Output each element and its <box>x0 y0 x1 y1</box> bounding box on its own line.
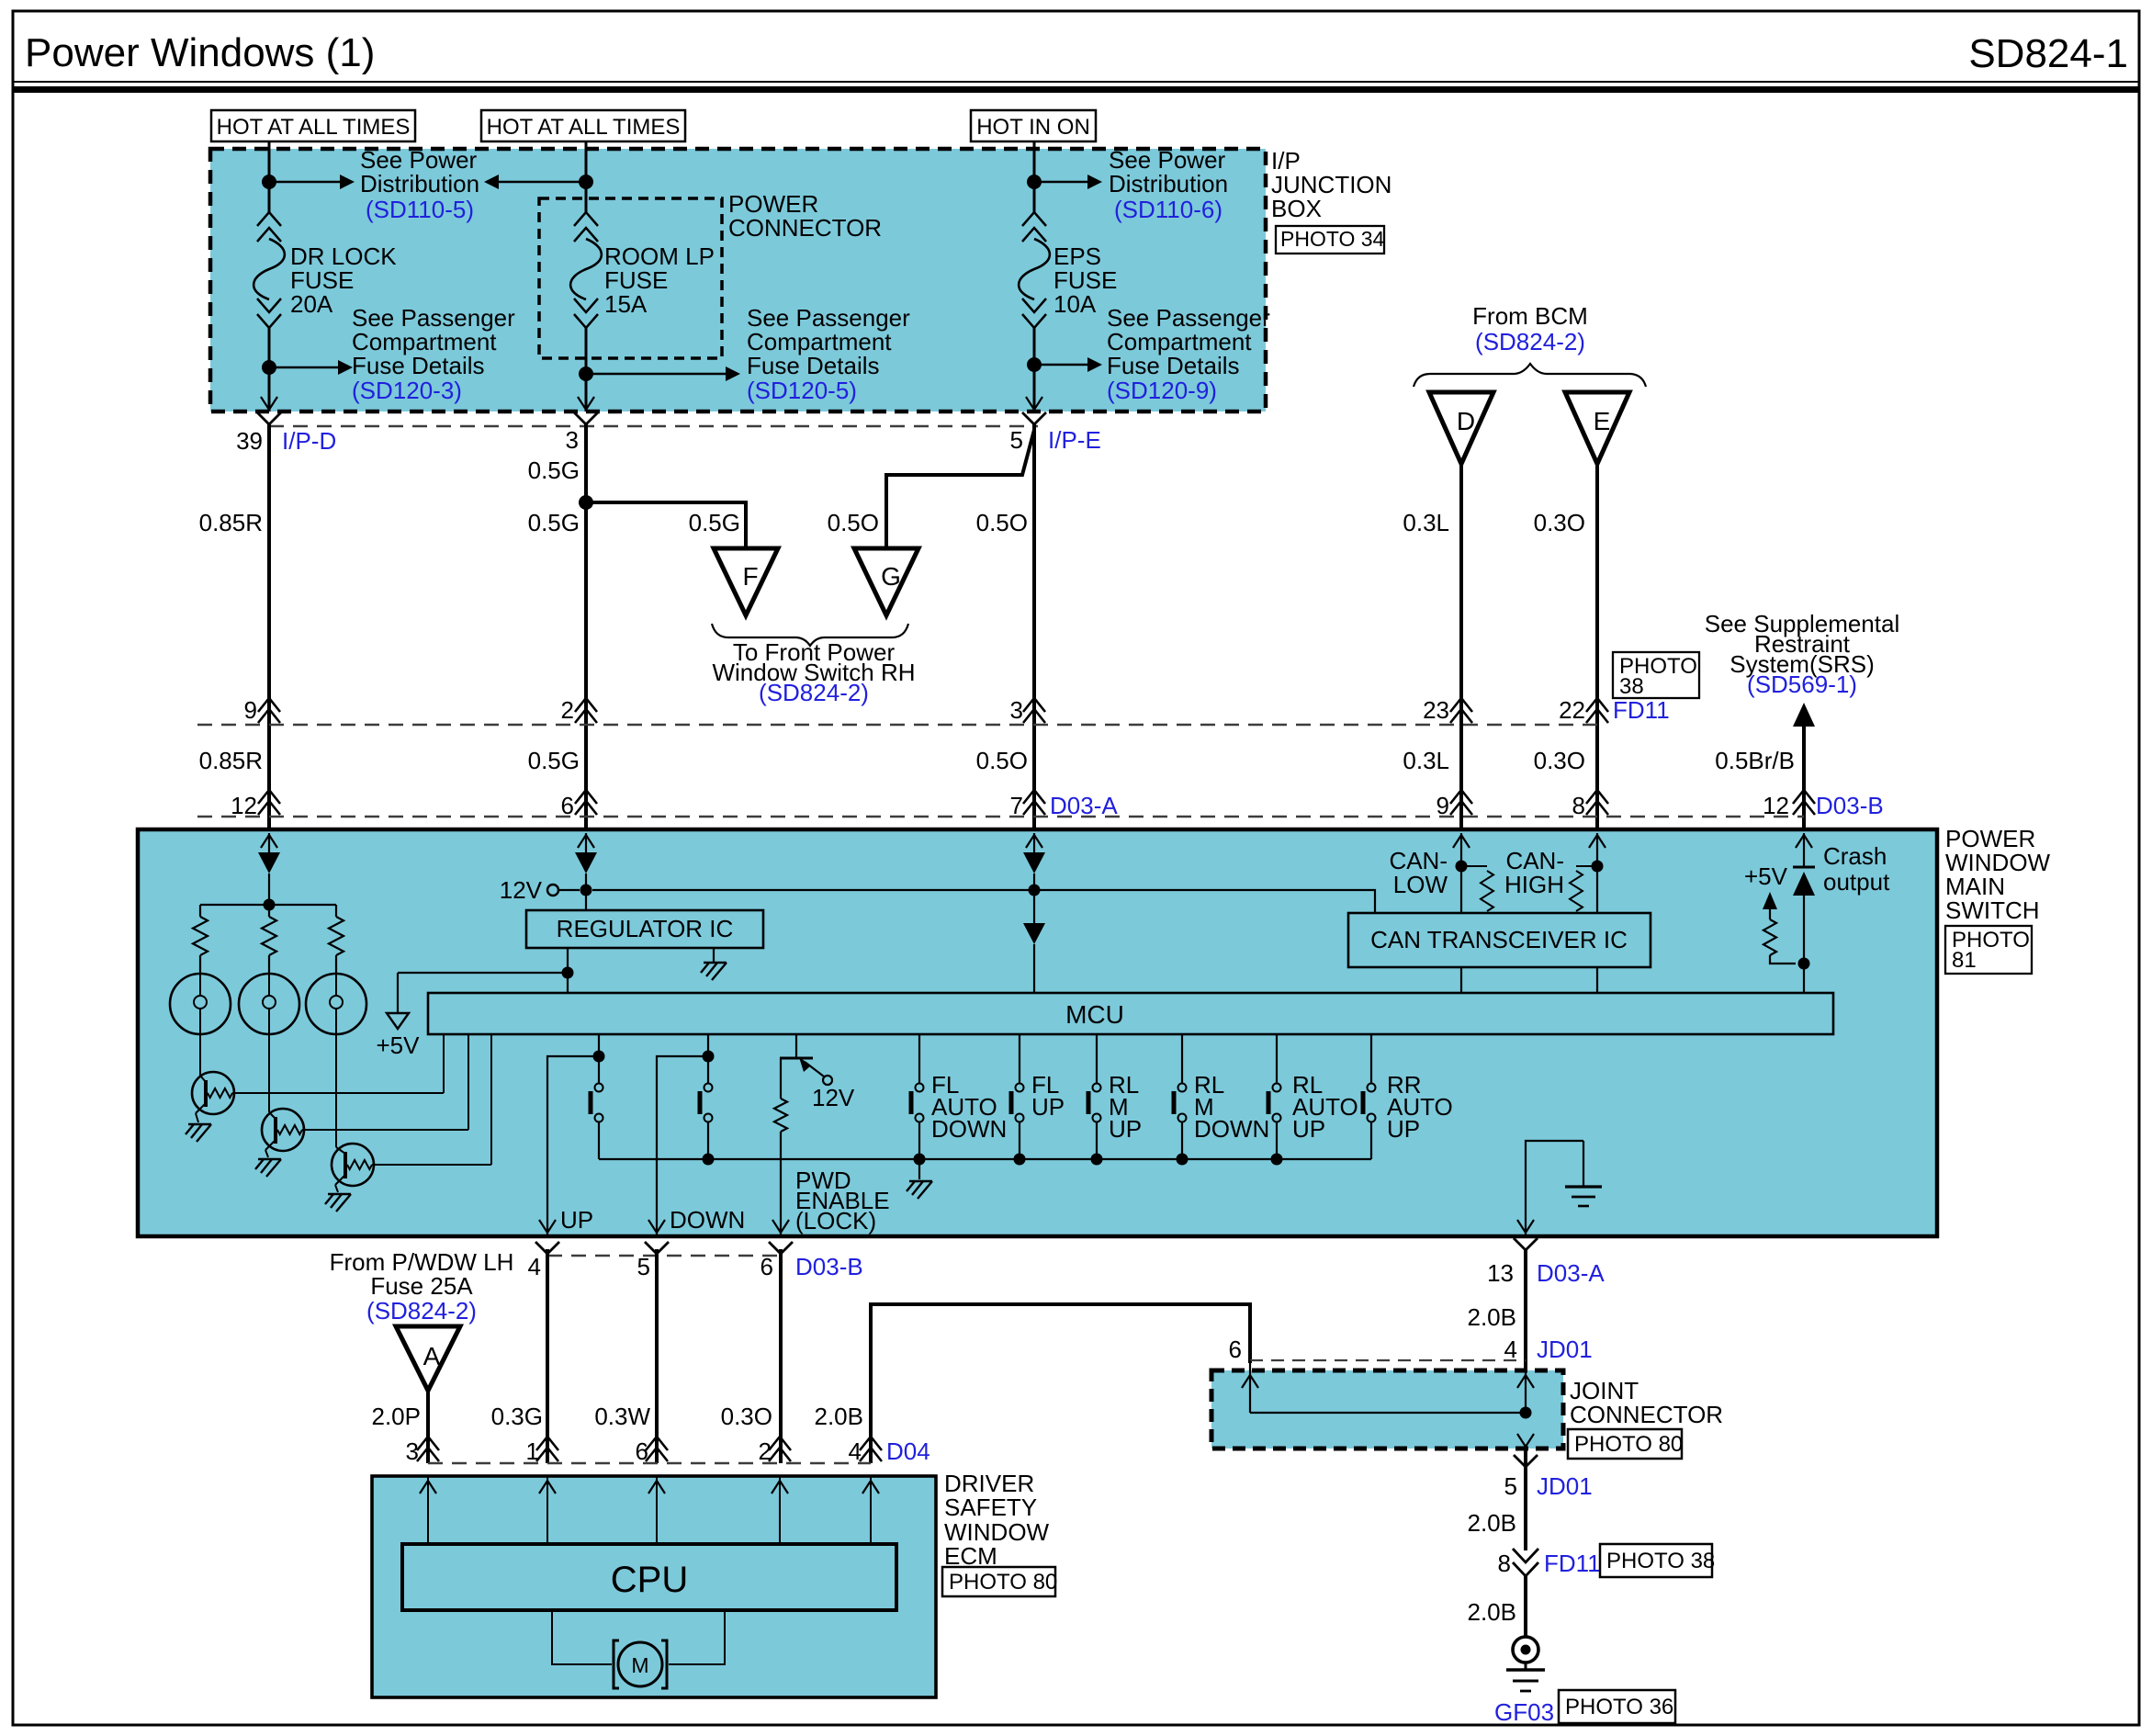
svg-text:HIGH: HIGH <box>1504 871 1564 898</box>
svg-text:A: A <box>423 1342 441 1370</box>
svg-text:+5V: +5V <box>377 1031 421 1059</box>
svg-text:(SD120-5): (SD120-5) <box>747 377 857 404</box>
svg-text:0.5G: 0.5G <box>528 509 580 536</box>
svg-text:38: 38 <box>1619 674 1644 699</box>
pin entry arrow <box>585 833 587 851</box>
driver safety window ECM box <box>372 1476 936 1697</box>
title band bottom line <box>13 81 2139 83</box>
transistor Q3 (lamp driver) <box>332 1144 374 1186</box>
svg-text:PHOTO 34: PHOTO 34 <box>1280 227 1385 251</box>
PHOTO 38 box (lower) <box>1600 1544 1712 1577</box>
svg-text:(SD569-1): (SD569-1) <box>1747 671 1857 698</box>
svg-text:0.85R: 0.85R <box>199 747 263 774</box>
svg-text:Distribution: Distribution <box>360 170 479 197</box>
lamp (illumination bulb) <box>239 974 299 1034</box>
joint connector internal bus <box>1249 1360 1251 1413</box>
connector pin 6 <box>769 1242 793 1254</box>
switch (RL M DOWN) <box>1181 1034 1183 1083</box>
crash output diode <box>1793 866 1815 869</box>
12V rail to CAN transceiver <box>592 890 1375 913</box>
junction node <box>562 967 574 979</box>
svg-text:1: 1 <box>526 1437 539 1465</box>
svg-text:22: 22 <box>1559 696 1585 724</box>
connector pin 39 I/P-D <box>257 412 281 424</box>
switch (RR AUTO UP) <box>1370 1034 1372 1083</box>
connector A <box>396 1326 460 1391</box>
svg-text:UP: UP <box>1031 1093 1065 1121</box>
svg-text:JD01: JD01 <box>1537 1472 1593 1500</box>
connector row FD11 dashed line <box>197 724 1597 726</box>
svg-text:5: 5 <box>1504 1472 1517 1500</box>
svg-text:12V: 12V <box>500 876 543 904</box>
SRS arrow (crash output to SRS) <box>1793 703 1815 727</box>
svg-text:12V: 12V <box>812 1084 855 1111</box>
exit arrow at junction box edge <box>578 397 594 410</box>
connector pin 1 <box>536 1448 558 1461</box>
arrow to See Passenger Fuse Details (SD120-5) <box>586 373 727 375</box>
svg-text:0.3G: 0.3G <box>491 1403 543 1430</box>
wire 0.3W <box>655 1249 659 1463</box>
PHOTO 38 box (FD11) <box>1613 652 1699 698</box>
svg-text:7: 7 <box>1010 792 1023 819</box>
wire from HOT IN ON to EPS fuse <box>1033 141 1036 212</box>
connector pin 13 D03-A <box>1514 1238 1538 1250</box>
svg-text:HOT IN ON: HOT IN ON <box>976 115 1090 140</box>
svg-text:2.0B: 2.0B <box>815 1403 864 1430</box>
svg-text:DOWN: DOWN <box>1194 1115 1269 1143</box>
wire 2.0B (FD11 to ground) <box>1524 1576 1527 1636</box>
switch (UP) <box>598 1056 600 1083</box>
svg-text:GF03: GF03 <box>1494 1698 1554 1726</box>
svg-text:Fuse Details: Fuse Details <box>747 352 880 379</box>
svg-text:2.0P: 2.0P <box>372 1403 422 1430</box>
MCU stub (UP) <box>598 1034 600 1056</box>
svg-text:6: 6 <box>636 1437 648 1465</box>
termination resistor (CAN high) <box>1576 865 1592 867</box>
svg-text:DOWN: DOWN <box>670 1206 745 1234</box>
connector pin 9 <box>258 709 280 723</box>
pin 9 CAN low wire <box>1460 851 1462 913</box>
label box HOT AT ALL TIMES (left) <box>211 110 415 141</box>
svg-text:CAN TRANSCEIVER IC: CAN TRANSCEIVER IC <box>1370 926 1628 953</box>
junction node <box>914 1154 926 1166</box>
diode (illumination feed) <box>258 852 280 874</box>
svg-text:0.85R: 0.85R <box>199 509 263 536</box>
svg-text:2.0B: 2.0B <box>1468 1598 1517 1626</box>
exit arrow PWD <box>772 1220 789 1233</box>
svg-text:BOX: BOX <box>1271 195 1322 222</box>
connector pin 3 <box>417 1448 439 1461</box>
svg-text:0.5O: 0.5O <box>828 509 879 536</box>
svg-text:2: 2 <box>759 1437 772 1465</box>
svg-text:13: 13 <box>1487 1259 1514 1287</box>
svg-text:UP: UP <box>1387 1115 1420 1143</box>
svg-text:6: 6 <box>1229 1336 1242 1363</box>
CAN transceiver to MCU stubs <box>1460 967 1462 993</box>
svg-text:CONNECTOR: CONNECTOR <box>728 214 882 242</box>
junction node <box>580 885 592 896</box>
12V terminal circle <box>547 885 558 896</box>
svg-text:23: 23 <box>1423 696 1449 724</box>
arrow to See Power Distribution (left pointing) <box>497 181 586 183</box>
svg-text:9: 9 <box>244 696 257 724</box>
svg-text:(SD824-2): (SD824-2) <box>366 1297 477 1325</box>
junction node <box>703 1154 715 1166</box>
UP output wire <box>547 1056 599 1234</box>
switch (FL AUTO DOWN) <box>918 1034 920 1083</box>
svg-text:4: 4 <box>528 1253 541 1280</box>
junction node <box>579 175 593 189</box>
junction node <box>1271 1154 1283 1166</box>
connector pin 5 I/P-E <box>1022 412 1046 424</box>
svg-text:6: 6 <box>761 1253 773 1280</box>
junction node <box>579 366 593 381</box>
svg-text:(SD110-6): (SD110-6) <box>1114 196 1222 223</box>
svg-text:E: E <box>1594 407 1611 435</box>
MCU stub (DOWN) <box>707 1034 709 1056</box>
connector pin 8 <box>1586 801 1608 815</box>
svg-text:MCU: MCU <box>1065 1000 1124 1029</box>
12V terminal (PWD) <box>823 1076 832 1085</box>
svg-text:0.3L: 0.3L <box>1403 747 1449 774</box>
PHOTO 34 box <box>1276 226 1384 254</box>
+5V output of regulator <box>567 948 569 973</box>
base wire Q3 to MCU <box>372 1164 491 1166</box>
connector pin 5 JD01 <box>1514 1455 1538 1467</box>
diode (regulator feed) <box>575 852 597 874</box>
CAN TRANSCEIVER IC box <box>1348 913 1651 967</box>
svg-text:+5V: +5V <box>1744 862 1788 890</box>
svg-text:Fuse Details: Fuse Details <box>352 352 485 379</box>
brace under F and G <box>712 624 908 646</box>
connector row JD01 dashed line <box>1250 1359 1526 1361</box>
svg-text:Fuse Details: Fuse Details <box>1107 352 1240 379</box>
pin entry arrow <box>1033 833 1035 851</box>
svg-text:0.3W: 0.3W <box>594 1403 650 1430</box>
svg-text:2.0B: 2.0B <box>1468 1509 1517 1537</box>
svg-text:0.5O: 0.5O <box>976 747 1028 774</box>
PHOTO 80 box (joint connector) <box>1568 1429 1682 1459</box>
label box HOT IN ON <box>971 110 1096 141</box>
svg-text:FD11: FD11 <box>1613 696 1670 724</box>
junction node <box>262 175 276 189</box>
junction node <box>262 360 276 375</box>
PHOTO 80 box (ECM) <box>942 1567 1055 1596</box>
ground (switch bus) <box>918 1159 920 1179</box>
base wire Q1 to MCU <box>232 1092 444 1094</box>
connector pin 6 <box>646 1448 668 1461</box>
ECM pin entry <box>656 1476 658 1544</box>
svg-text:(LOCK): (LOCK) <box>795 1207 876 1234</box>
connector F <box>714 548 778 615</box>
PHOTO 81 box <box>1945 926 2032 974</box>
arrow to See Power Distribution (SD110-6) <box>1034 181 1089 183</box>
exit arrow DOWN <box>648 1220 665 1233</box>
junction node <box>1027 175 1042 189</box>
switch (FL UP) <box>1019 1034 1020 1083</box>
svg-text:5: 5 <box>637 1253 650 1280</box>
connector row D04 dashed line <box>428 1462 871 1464</box>
svg-text:PHOTO 80: PHOTO 80 <box>949 1570 1057 1595</box>
svg-text:HOT AT ALL TIMES: HOT AT ALL TIMES <box>217 115 411 140</box>
svg-text:Power Windows (1): Power Windows (1) <box>25 30 375 75</box>
svg-text:12: 12 <box>231 792 257 819</box>
connector G <box>854 548 918 615</box>
junction node <box>1592 861 1604 873</box>
wire 2.0B (pin 13 to joint connector) <box>1524 1249 1527 1370</box>
lamp (illumination bulb) <box>170 974 231 1034</box>
wire 2.0B (ECM to joint connector) <box>871 1304 1250 1463</box>
junction node <box>1177 1154 1189 1166</box>
svg-text:8: 8 <box>1498 1550 1511 1577</box>
fuse ROOM LP 15A <box>574 212 598 226</box>
svg-text:SD824-1: SD824-1 <box>1968 31 2128 76</box>
wire 0.3O <box>779 1249 783 1463</box>
svg-text:(SD824-2): (SD824-2) <box>759 679 869 706</box>
wire from HOT AT ALL TIMES to ROOM LP fuse <box>585 141 588 212</box>
svg-text:0.5G: 0.5G <box>689 509 740 536</box>
svg-text:3: 3 <box>1010 696 1023 724</box>
lamp (illumination bulb) <box>306 974 366 1034</box>
brace over D and E <box>1414 364 1646 387</box>
CPU box <box>402 1544 896 1610</box>
resistor (lamp dropper) <box>335 905 337 917</box>
ECM pin entry <box>870 1476 872 1544</box>
svg-text:FD11: FD11 <box>1544 1550 1601 1577</box>
svg-text:Fuse 25A: Fuse 25A <box>370 1272 473 1300</box>
wire below ROOM LP fuse <box>585 328 588 411</box>
ECM pin entry <box>779 1476 781 1544</box>
svg-text:0.3L: 0.3L <box>1403 509 1449 536</box>
+5V supply symbol <box>387 1013 409 1029</box>
svg-text:2.0B: 2.0B <box>1468 1303 1517 1331</box>
exit arrow joint connector <box>1517 1434 1534 1447</box>
ground symbol (main switch) <box>1583 1141 1584 1187</box>
wire 0.5Br/B <box>1802 725 1806 829</box>
pin entry arrow <box>268 833 270 851</box>
wire 0.85R <box>267 424 271 829</box>
connector row I/P dashed line <box>269 425 1038 427</box>
ECM pin entry <box>427 1476 429 1544</box>
svg-text:I/P-E: I/P-E <box>1048 426 1101 454</box>
svg-text:UP: UP <box>560 1206 593 1234</box>
connector pin 3 <box>574 412 598 424</box>
junction node <box>264 899 276 911</box>
power window main switch box <box>138 829 1937 1236</box>
junction node <box>593 1051 605 1063</box>
svg-text:9: 9 <box>1437 792 1449 819</box>
transistor Q1 (lamp driver) <box>192 1072 234 1114</box>
REGULATOR IC box <box>526 910 763 948</box>
svg-text:15A: 15A <box>604 290 648 318</box>
connector E <box>1565 392 1629 464</box>
wire 0.5O <box>1032 424 1036 829</box>
ground (Q1) <box>188 1123 211 1125</box>
wire from HOT AT ALL TIMES to DR LOCK fuse <box>268 141 271 212</box>
svg-text:LOW: LOW <box>1393 871 1448 898</box>
ground (Q2) <box>258 1158 281 1160</box>
junction node <box>703 1051 715 1063</box>
svg-text:D03-B: D03-B <box>795 1253 863 1280</box>
connector D <box>1429 392 1493 464</box>
connector pin 12 D03-A <box>258 801 280 815</box>
svg-text:PHOTO 36: PHOTO 36 <box>1565 1695 1673 1719</box>
svg-text:PHOTO 38: PHOTO 38 <box>1606 1549 1715 1573</box>
svg-text:3: 3 <box>406 1437 419 1465</box>
fuse DR LOCK 20A <box>257 212 281 226</box>
svg-text:ECM: ECM <box>944 1542 997 1570</box>
wire 0.3G <box>546 1249 549 1463</box>
connector pin 7 D03-A <box>1023 801 1045 815</box>
svg-text:M: M <box>631 1653 648 1677</box>
svg-text:PHOTO 80: PHOTO 80 <box>1574 1432 1683 1457</box>
ground (Q3) <box>328 1193 351 1195</box>
wire 2.0P <box>426 1391 430 1463</box>
svg-text:G: G <box>881 562 901 591</box>
termination resistor (CAN low) <box>1467 865 1487 867</box>
fuse EPS 10A <box>1022 212 1046 226</box>
pullup resistor <box>1769 909 1771 919</box>
svg-text:0.5G: 0.5G <box>528 747 580 774</box>
svg-text:39: 39 <box>236 427 263 455</box>
svg-text:2: 2 <box>561 696 574 724</box>
connector row D03-B dashed line <box>547 1255 781 1257</box>
junction node <box>1029 885 1041 896</box>
svg-text:5: 5 <box>1010 426 1023 454</box>
PWD resistor <box>780 1058 782 1099</box>
wire 0.3L from D <box>1459 464 1463 829</box>
pin 13 ground return wire <box>1526 1141 1583 1234</box>
svg-text:UP: UP <box>1292 1115 1325 1143</box>
svg-text:CPU: CPU <box>611 1560 688 1600</box>
svg-text:10A: 10A <box>1053 290 1097 318</box>
joint connector box <box>1211 1370 1563 1449</box>
junction node <box>1091 1154 1103 1166</box>
svg-text:D: D <box>1457 407 1475 435</box>
svg-text:CONNECTOR: CONNECTOR <box>1570 1401 1723 1428</box>
wire 0.5G <box>584 424 588 829</box>
resistor (lamp dropper) <box>268 905 270 917</box>
PHOTO 36 box <box>1559 1690 1675 1723</box>
resistor (lamp dropper) <box>199 905 201 917</box>
connector pin 9 <box>1450 801 1472 815</box>
svg-text:From BCM: From BCM <box>1472 302 1588 330</box>
svg-text:(SD824-2): (SD824-2) <box>1475 328 1585 355</box>
svg-text:UP: UP <box>1109 1115 1142 1143</box>
exit arrow UP <box>539 1220 556 1233</box>
junction node <box>579 495 593 510</box>
svg-text:81: 81 <box>1952 948 1977 973</box>
connector pin 2 <box>575 709 597 723</box>
title separator bar <box>13 86 2139 93</box>
svg-text:output: output <box>1823 868 1890 896</box>
connector pin 4 <box>860 1448 882 1461</box>
svg-text:Crash: Crash <box>1823 842 1887 870</box>
svg-text:8: 8 <box>1572 792 1585 819</box>
transistor Q2 (lamp driver) <box>262 1109 304 1151</box>
+5V arrow <box>1763 892 1777 909</box>
I/P junction box (fuse box) <box>210 149 1266 411</box>
svg-text:SWITCH: SWITCH <box>1945 896 2040 924</box>
motor drive wires <box>552 1610 612 1664</box>
pin entry arrow <box>1596 833 1598 851</box>
pin 8 CAN high wire <box>1596 851 1598 913</box>
motor M <box>618 1642 662 1686</box>
svg-text:D03-A: D03-A <box>1050 792 1118 819</box>
svg-text:HOT AT ALL TIMES: HOT AT ALL TIMES <box>487 115 681 140</box>
switch (DOWN) <box>707 1056 709 1083</box>
svg-text:6: 6 <box>561 792 574 819</box>
connector pin 5 <box>645 1242 669 1254</box>
ground (regulator) <box>704 962 727 964</box>
inline connector 8 FD11 <box>1513 1549 1538 1562</box>
svg-text:0.5Br/B: 0.5Br/B <box>1715 747 1795 774</box>
svg-text:DOWN: DOWN <box>931 1115 1007 1143</box>
switch (RL M UP) <box>1096 1034 1098 1083</box>
regulator ground stub <box>713 948 715 963</box>
arrow to See Passenger Fuse Details (SD120-3) <box>269 366 340 368</box>
base wire Q2 to MCU <box>302 1129 468 1131</box>
exit arrow at junction box edge <box>261 397 277 410</box>
wire branch to connector F <box>586 502 746 548</box>
svg-text:F: F <box>742 562 758 591</box>
connector pin 6 <box>575 801 597 815</box>
wire 2.0B (joint connector to FD11) <box>1524 1449 1527 1550</box>
MCU stub (PWD) <box>795 1034 797 1058</box>
svg-text:D03-A: D03-A <box>1537 1259 1605 1287</box>
svg-text:REGULATOR IC: REGULATOR IC <box>557 915 734 942</box>
arrow to See Passenger Fuse Details (SD120-9) <box>1034 364 1089 366</box>
MCU box <box>428 993 1833 1034</box>
POWER CONNECTOR dashed box <box>539 198 722 358</box>
label box HOT AT ALL TIMES (middle) <box>481 110 685 141</box>
svg-text:SAFETY: SAFETY <box>944 1494 1037 1521</box>
svg-text:Distribution: Distribution <box>1109 170 1228 197</box>
svg-text:0.5O: 0.5O <box>976 509 1028 536</box>
junction node <box>1014 1154 1026 1166</box>
svg-text:12: 12 <box>1763 792 1789 819</box>
diode (battery feed 1) <box>1023 852 1045 874</box>
connector pin 23 <box>1450 709 1472 723</box>
illumination rail <box>200 904 336 906</box>
svg-text:0.3O: 0.3O <box>721 1403 772 1430</box>
switch (RL AUTO UP) <box>1276 1034 1278 1083</box>
junction node <box>1798 958 1810 970</box>
svg-text:D04: D04 <box>886 1437 930 1465</box>
exit arrow at junction box edge <box>1026 397 1042 410</box>
connector pin 3 <box>1023 709 1045 723</box>
svg-text:0.5G: 0.5G <box>528 457 580 484</box>
svg-text:20A: 20A <box>290 290 333 318</box>
svg-text:(SD120-3): (SD120-3) <box>352 377 462 404</box>
PWD transistor switch <box>780 1057 813 1060</box>
wire 0.3O from E <box>1595 464 1599 829</box>
connector pin 22 FD11 <box>1586 709 1608 723</box>
junction node <box>1027 357 1042 372</box>
connector pin 4 <box>535 1242 559 1254</box>
wire to +5V symbol <box>398 972 568 974</box>
ECM pin entry <box>546 1476 548 1544</box>
wire below DR LOCK fuse <box>268 328 271 411</box>
arrow to See Power Distribution (SD110-5) <box>269 181 342 183</box>
svg-text:D03-B: D03-B <box>1816 792 1884 819</box>
connector pin 2 <box>769 1448 791 1461</box>
junction node <box>1456 861 1468 873</box>
pin entry arrow <box>1460 833 1462 851</box>
connector row D03 dashed line <box>197 816 1804 817</box>
DOWN output wire <box>657 1056 708 1234</box>
svg-text:3: 3 <box>566 426 579 454</box>
